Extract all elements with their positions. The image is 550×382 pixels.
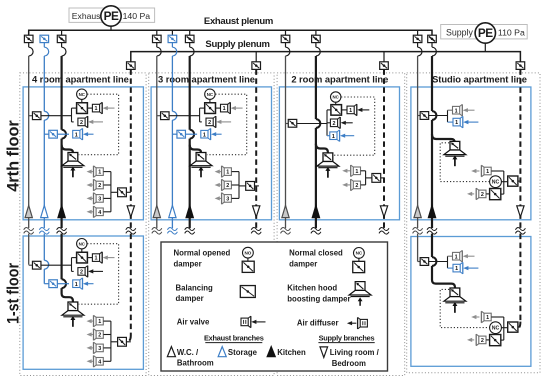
legend air valve symbol (241, 316, 266, 328)
studio 1st floor supply collector (503, 317, 505, 340)
svg-text:Exhaust branches: Exhaust branches (204, 333, 264, 342)
svg-text:1: 1 (486, 315, 489, 321)
2 room 4th floor supply diffuser collector (365, 171, 367, 185)
3 room 4th floor storage air valve 1 (201, 128, 222, 140)
svg-text:1: 1 (75, 282, 78, 288)
svg-text:boosting damper: boosting damper (287, 294, 350, 303)
studio 4th floor normally closed supply damper (490, 189, 504, 200)
3 room supply riser (255, 69, 257, 228)
4 room 1st floor blue box (23, 236, 143, 369)
svg-text:1: 1 (486, 169, 489, 175)
4 room 4th floor supply air diffuser 3 (87, 193, 111, 205)
studio 4th floor kitchen hood branch (432, 134, 455, 143)
2 room 4th floor supply air diffuser 1 (342, 165, 365, 177)
svg-text:Kitchen: Kitchen (277, 348, 306, 357)
svg-text:1: 1 (455, 266, 458, 272)
svg-text:2: 2 (333, 121, 336, 127)
svg-text:NC: NC (207, 92, 214, 97)
studio 1st floor W.C. branch damper (420, 258, 429, 266)
4 room 4th floor kitchen hood branch (62, 145, 73, 152)
svg-text:1: 1 (455, 120, 458, 126)
4 room W.C. riser (28, 56, 30, 265)
svg-text:3: 3 (98, 197, 101, 203)
legend text air diffuser (297, 319, 339, 328)
4 room supply riser (126, 69, 130, 341)
studio 4th floor supply air diffuser 1 (471, 165, 504, 177)
legend heading supply branches (318, 333, 374, 342)
svg-text:4rth floor: 4rth floor (5, 120, 23, 192)
studio 1st floor kitchen hood boosting damper (444, 288, 466, 313)
studio supply riser break (515, 227, 525, 234)
4 room 4th floor supply air diffuser 2 (87, 179, 111, 191)
svg-text:4 room apartment line: 4 room apartment line (32, 74, 129, 85)
3 room storage branch symbol (169, 205, 176, 217)
4 room kitchen riser (62, 56, 73, 302)
studio 1st floor NC actuator circle (490, 322, 508, 335)
2 room 4th floor storage air valve 1 (327, 130, 354, 142)
2 room 4th floor normally closed damper (327, 105, 347, 116)
3 room supply branch damper (252, 52, 261, 70)
4 room 1st floor air valve 2 (72, 266, 104, 278)
svg-text:3: 3 (226, 197, 229, 203)
svg-text:140 Pa: 140 Pa (123, 11, 151, 21)
2 room supply branch damper (380, 52, 389, 70)
4 room apartment line dotted enclosure (20, 73, 146, 376)
4 room 4th floor blue box (23, 87, 143, 220)
legend box (161, 242, 388, 371)
4 room 4th floor kitchen hood boosting damper (62, 153, 84, 178)
legend normal closed damper symbol (353, 261, 365, 272)
exhaust fan pressure 140 Pa (123, 11, 151, 21)
studio W.C. branch symbol (414, 205, 421, 217)
legend text normal closed damper (289, 248, 343, 268)
4 room 1st floor NC actuator circle (77, 239, 87, 253)
4 room 4th floor supply branch damper (111, 188, 131, 197)
svg-text:damper: damper (176, 294, 204, 303)
2 room W.C. riser break (281, 227, 291, 234)
svg-text:2: 2 (226, 183, 229, 189)
2 room 4th floor air valve 2 (327, 117, 353, 129)
legend text normal opened damper (174, 248, 231, 268)
svg-text:NC: NC (492, 179, 500, 185)
legend text air valve (177, 318, 210, 327)
svg-text:1: 1 (98, 319, 101, 325)
studio 4th floor blue box (411, 87, 531, 220)
svg-text:NO: NO (244, 250, 251, 255)
legend air diffuser symbol (347, 317, 368, 329)
3 room 4th floor normally closed damper (200, 103, 221, 114)
4 room 1st floor exhaust collector (71, 258, 73, 272)
2 room kitchen riser damper (312, 30, 321, 56)
legend text kitchen hood boosting damper (287, 284, 350, 304)
4 room supply riser break (126, 227, 136, 234)
3 room kitchen riser (190, 56, 194, 228)
3 room kitchen riser break (185, 227, 195, 234)
3 room kitchen branch symbol (186, 205, 193, 217)
svg-text:damper: damper (174, 260, 202, 269)
3 room supply branch symbol (253, 206, 260, 217)
2 room 4th floor W.C. branch damper (288, 119, 297, 127)
3 room 4th floor W.C. branch damper (161, 112, 170, 120)
3 room 4th floor kitchen hood boosting damper (190, 153, 212, 178)
svg-text:Bedroom: Bedroom (332, 359, 366, 368)
4 room 4th floor NC actuator circle (77, 89, 87, 103)
exhaust plenum label Exhaust plenum (204, 16, 273, 27)
svg-text:1: 1 (223, 106, 226, 112)
4 room 4th floor supply air diffuser 1 (87, 166, 111, 178)
studio 4th floor air valve 1 (448, 104, 475, 116)
svg-text:1-st floor: 1-st floor (5, 263, 23, 324)
svg-text:4: 4 (98, 359, 101, 365)
legend NC actuator circle (354, 248, 365, 262)
svg-text:Studio apartment line: Studio apartment line (432, 74, 527, 85)
2 room 4th floor air valve 1 (347, 104, 369, 116)
studio 4th floor hood interlock dotted link (440, 143, 489, 182)
svg-text:1: 1 (75, 132, 78, 138)
studio 1st floor W.C. branch duct (418, 261, 448, 263)
exhaust fan text Exhaust (72, 11, 104, 21)
svg-text:NC: NC (492, 325, 500, 331)
4 room 1st floor W.C. branch damper (32, 261, 41, 269)
svg-text:damper: damper (289, 260, 317, 269)
4 room 4th floor storage branch damper (49, 130, 58, 138)
svg-text:Balancing: Balancing (176, 284, 213, 293)
svg-text:Air valve: Air valve (177, 318, 210, 327)
label 1-st floor (5, 263, 23, 324)
svg-text:1: 1 (95, 256, 98, 262)
4 room 1st floor supply diffuser collector (110, 321, 112, 361)
3 room storage riser break (167, 227, 177, 234)
4 room storage riser (44, 56, 48, 284)
3 room W.C. riser (156, 56, 158, 228)
svg-text:1: 1 (95, 106, 98, 112)
3 room 4th floor supply branch damper (239, 182, 259, 191)
4 room 1st floor storage branch damper (49, 280, 58, 288)
3 room 4th floor NC actuator circle (205, 89, 215, 103)
3 room 4th floor kitchen hood branch (190, 145, 201, 152)
svg-text:1: 1 (455, 254, 458, 260)
3 room 4th floor storage branch duct (172, 133, 197, 135)
4 room 1st floor supply air diffuser 1 (87, 315, 111, 327)
2 room 4th floor exhaust collector (326, 110, 328, 136)
svg-text:110 Pa: 110 Pa (498, 28, 525, 38)
2 room 4th floor W.C. branch duct (286, 123, 328, 125)
2 room supply branch symbol (380, 206, 387, 217)
3 room supply riser break (251, 227, 261, 234)
2 room W.C. riser damper (281, 30, 290, 56)
3 room 4th floor blue box (151, 87, 271, 220)
svg-text:Kitchen hood: Kitchen hood (287, 284, 337, 293)
svg-text:2: 2 (80, 120, 83, 126)
3 room 4th floor air valve 1 (221, 102, 243, 114)
4 room 4th floor air valve 1 (92, 102, 114, 114)
3 room 4th floor supply air diffuser 2 (215, 179, 239, 191)
studio kitchen riser break (427, 227, 437, 234)
svg-text:3: 3 (98, 346, 101, 352)
svg-text:Supply: Supply (446, 28, 473, 38)
3 room storage riser damper (168, 30, 177, 56)
svg-text:Exhaust: Exhaust (72, 11, 104, 21)
svg-text:Air diffuser: Air diffuser (297, 319, 339, 328)
Studio apartment line dotted enclosure (407, 73, 540, 373)
svg-text:Storage: Storage (228, 348, 258, 357)
label 4rth floor (5, 120, 23, 192)
svg-text:2: 2 (481, 338, 484, 344)
svg-text:2: 2 (98, 333, 101, 339)
studio W.C. riser (417, 56, 419, 262)
svg-text:W.C. /: W.C. / (177, 348, 199, 357)
supply plenum main duct (131, 52, 521, 62)
svg-text:PE: PE (104, 9, 119, 23)
2 room supply riser (383, 69, 385, 228)
3 room W.C. branch symbol (153, 205, 160, 217)
4 room supply branch symbol (127, 206, 134, 217)
4 room 4th floor air valve 2 (72, 116, 104, 128)
4 room 4th floor storage air valve 1 (73, 128, 94, 140)
studio 1st floor exhaust collector (447, 256, 449, 268)
studio 1st floor supply air diffuser 2 (467, 334, 490, 346)
legend kitchen branch symbol (267, 347, 275, 357)
studio 1st floor supply branch damper (508, 322, 521, 332)
studio 4th floor exhaust collector (447, 110, 449, 122)
4 room storage riser damper (40, 35, 49, 56)
4 room 4th floor normally closed damper (72, 103, 93, 114)
legend text W.C. Bathroom (177, 348, 214, 368)
4 room 1st floor supply air diffuser 2 (87, 329, 111, 341)
studio 1st floor blue box (411, 237, 531, 367)
legend text kitchen (277, 348, 306, 357)
svg-text:Supply branches: Supply branches (319, 333, 375, 342)
exhaust plenum main duct (29, 30, 432, 35)
4 room 4th floor W.C. branch duct (29, 115, 72, 117)
4 room 4th floor storage branch duct (44, 133, 69, 135)
svg-text:1: 1 (226, 170, 229, 176)
4 room storage riser break (39, 227, 49, 234)
2 room 4th floor kitchen hood boosting damper (317, 153, 339, 178)
3 room 4th floor W.C. branch duct (157, 115, 200, 117)
svg-text:NC: NC (79, 241, 86, 246)
studio 4th floor kitchen hood boosting damper (444, 141, 466, 166)
svg-text:NC: NC (356, 251, 363, 256)
svg-text:NC: NC (79, 92, 86, 97)
3 room storage riser (172, 56, 176, 228)
title 4 room apartment line (32, 74, 129, 85)
legend supply branch symbol (320, 347, 328, 358)
4 room storage branch symbol (41, 205, 48, 217)
studio 4th floor W.C. branch damper (420, 112, 429, 120)
4 room W.C. riser damper (24, 35, 33, 56)
2 room supply riser break (379, 227, 389, 234)
4 room 4th floor W.C. branch damper (32, 112, 41, 120)
studio 1st floor hood interlock dotted link (440, 289, 489, 327)
3 room 4th floor exhaust collector (199, 108, 201, 122)
supply fan PE stem (484, 43, 486, 51)
studio 1st floor air valve 1 (448, 250, 475, 262)
legend heading exhaust branches (204, 333, 264, 342)
svg-text:Normal closed: Normal closed (289, 248, 343, 257)
svg-text:2: 2 (208, 120, 211, 126)
supply fan label box (441, 25, 528, 39)
legend normal opened damper symbol (242, 261, 254, 272)
legend text living room bedroom (330, 348, 380, 368)
4 room kitchen riser break (57, 227, 67, 234)
2 room kitchen branch symbol (312, 205, 319, 217)
svg-text:Living room /: Living room / (330, 348, 380, 357)
legend NO actuator circle (243, 247, 254, 261)
svg-text:2: 2 (481, 192, 484, 198)
2 room apartment line dotted enclosure (277, 73, 405, 376)
studio 4th floor storage air valve 1 (448, 116, 479, 128)
legend kitchen hood boosting damper symbol (349, 282, 371, 306)
4 room 1st floor storage branch duct (44, 283, 69, 285)
4 room 4th floor supply diffuser collector (110, 172, 112, 212)
4 room kitchen riser damper (57, 30, 66, 56)
4 room 1st floor supply air diffuser 3 (87, 342, 111, 354)
svg-text:1: 1 (349, 108, 352, 114)
4 room W.C. riser break (24, 227, 34, 234)
3 room W.C. riser break (152, 227, 162, 234)
3 room W.C. riser damper (153, 30, 162, 56)
exhaust fan PE stem (110, 26, 112, 30)
4 room 4th floor supply air diffuser 4 (87, 206, 111, 218)
svg-text:2: 2 (80, 270, 83, 276)
svg-text:1: 1 (455, 108, 458, 114)
4 room W.C. branch symbol (25, 205, 32, 217)
legend text balancing damper (176, 284, 213, 304)
svg-text:Normal opened: Normal opened (174, 248, 231, 257)
studio 1st floor normally closed supply damper (490, 335, 504, 346)
2 room W.C. riser (285, 56, 287, 228)
svg-text:1: 1 (355, 169, 358, 175)
svg-text:PE: PE (478, 26, 493, 40)
3 room 4th floor storage branch damper (177, 130, 186, 138)
svg-text:4: 4 (98, 210, 101, 216)
studio kitchen riser damper (428, 35, 437, 56)
3 room kitchen riser damper (185, 30, 194, 56)
studio 1st floor supply air diffuser 1 (471, 311, 504, 323)
3 room 4th floor hood interlock dotted link (207, 94, 247, 155)
4 room kitchen branch symbol (58, 205, 65, 217)
4 room 1st floor air valve 1 (92, 252, 114, 264)
3 room apartment line dotted enclosure (149, 73, 274, 376)
2 room kitchen riser break (311, 227, 321, 234)
svg-text:2: 2 (355, 183, 358, 189)
studio W.C. riser damper (413, 30, 422, 56)
4 room 1st floor hood interlock dotted link (79, 244, 119, 305)
4 room 1st floor supply air diffuser 4 (87, 356, 111, 368)
supply fan text Supply (446, 28, 473, 38)
2 room 4th floor NC actuator circle (331, 92, 341, 105)
exhaust fan PE circle (101, 6, 121, 26)
studio kitchen branch symbol (428, 205, 435, 217)
4 room 1st floor storage air valve 1 (73, 278, 94, 290)
studio W.C. riser break (413, 227, 423, 234)
studio 4th floor W.C. branch duct (418, 115, 448, 117)
studio 4th floor supply air diffuser 2 (467, 188, 490, 200)
svg-text:NC: NC (333, 95, 340, 100)
4 room 4th floor hood interlock dotted link (79, 94, 119, 155)
3 room 4th floor supply air diffuser 1 (215, 166, 239, 178)
svg-text:1: 1 (98, 170, 101, 176)
2 room 4th floor kitchen hood branch (316, 144, 328, 153)
svg-text:2: 2 (98, 183, 101, 189)
legend storage branch symbol (218, 347, 226, 357)
title 2 room apartment line (291, 74, 388, 85)
svg-text:Exhaust plenum: Exhaust plenum (204, 16, 273, 27)
2 room 4th floor hood interlock dotted link (334, 97, 375, 155)
svg-text:1: 1 (203, 132, 206, 138)
title Studio apartment line (432, 74, 527, 85)
exhaust fan label box (69, 8, 155, 22)
4 room 1st floor W.C. branch duct (29, 264, 72, 266)
2 room 4th floor blue box (279, 87, 399, 220)
studio 4th floor NC actuator circle (490, 176, 508, 189)
studio supply branch damper (516, 62, 525, 70)
supply fan pressure 110 Pa (498, 28, 525, 38)
2 room 4th floor supply air diffuser 2 (342, 179, 365, 191)
supply plenum label Supply plenum (205, 39, 269, 50)
studio kitchen riser (432, 56, 455, 288)
studio supply branch symbol (517, 206, 524, 217)
svg-text:2 room apartment line: 2 room apartment line (291, 74, 388, 85)
svg-text:Bathroom: Bathroom (177, 359, 214, 368)
legend text storage (228, 348, 258, 357)
3 room 4th floor supply diffuser collector (238, 172, 240, 199)
2 room kitchen riser (316, 56, 320, 228)
svg-text:Supply plenum: Supply plenum (205, 39, 269, 50)
3 room 4th floor supply air diffuser 3 (215, 193, 239, 205)
4 room 1st floor kitchen hood boosting damper (62, 302, 84, 327)
studio 1st floor storage air valve 1 (448, 262, 479, 274)
4 room 1st floor normally closed damper (72, 252, 93, 263)
4 room 4th floor exhaust collector (71, 108, 73, 122)
4 room supply branch damper (127, 62, 136, 70)
2 room W.C. branch symbol (282, 205, 289, 217)
studio supply riser (518, 69, 521, 328)
title 3 room apartment line (158, 74, 255, 85)
3 room 4th floor air valve 2 (200, 116, 232, 128)
2 room 4th floor supply branch damper (366, 174, 384, 183)
studio 4th floor supply collector (503, 171, 505, 194)
legend W.C. branch symbol (167, 347, 175, 357)
studio 4th floor supply branch damper (508, 176, 521, 186)
svg-text:1: 1 (332, 134, 335, 140)
supply fan PE circle (475, 23, 495, 43)
4 room 1st floor supply branch damper (111, 337, 131, 346)
legend balancing damper symbol (240, 286, 255, 298)
